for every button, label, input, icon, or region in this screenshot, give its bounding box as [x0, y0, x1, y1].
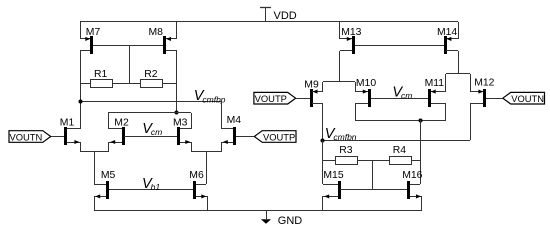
wire VOUTN to M1 gate	[51, 136, 64, 138]
resistor R3	[336, 145, 358, 165]
wire resistor row left	[80, 83, 177, 85]
transistor M15	[323, 170, 344, 210]
wire tail M11 M12	[446, 73, 470, 75]
port VOUTP left block	[254, 131, 296, 143]
wire M14 drain stub	[446, 50, 458, 52]
node B junction	[175, 111, 179, 115]
wire VDD to M13 source	[339, 22, 341, 39]
svg-text:M8: M8	[149, 27, 164, 38]
svg-text:VOUTN: VOUTN	[9, 131, 42, 142]
svg-text:b1: b1	[151, 182, 161, 192]
GND label	[278, 215, 303, 227]
wire M7 gate to M8 gate	[93, 45, 163, 47]
wire Vcmfbp to M4 drain	[221, 101, 223, 129]
svg-text:R2: R2	[144, 69, 158, 80]
wire M13 drain to tail	[339, 51, 341, 82]
svg-text:M3: M3	[173, 117, 188, 128]
resistor R2	[141, 69, 163, 87]
resistor R4	[390, 145, 412, 165]
wire node B vertical	[176, 51, 178, 113]
svg-text:cmfbn: cmfbn	[333, 132, 356, 142]
wire M2 drain vertical	[108, 113, 110, 129]
wire VOUTP to M4 gate	[236, 136, 254, 138]
svg-text:R3: R3	[339, 145, 353, 156]
VDD supply symbol	[260, 8, 271, 23]
svg-text:M6: M6	[189, 170, 204, 181]
svg-text:cmfbp: cmfbp	[202, 94, 225, 104]
wire Vcm gate wire right	[371, 98, 428, 100]
label Vcmfbn	[325, 126, 357, 142]
ground rail wire	[94, 210, 422, 212]
wire Vcm gate wire left	[124, 136, 177, 138]
transistor M10	[355, 78, 376, 120]
transistor M9	[304, 79, 323, 140]
wire M3 drain vertical	[191, 113, 193, 129]
transistor M6	[189, 170, 207, 210]
wire VDD to M7 source	[80, 22, 82, 39]
node A junction	[79, 100, 83, 104]
VDD label	[274, 10, 297, 22]
transistor M1	[60, 117, 81, 152]
transistor M8	[149, 27, 178, 54]
wire M14 drain to tail	[458, 51, 460, 74]
wire node A vertical	[80, 51, 82, 129]
wire Vb1 gate wire	[109, 189, 193, 191]
wire VOUTP to M9 gate	[296, 98, 310, 100]
svg-text:M12: M12	[474, 78, 494, 89]
wire tail M1 M2	[80, 151, 108, 153]
port VOUTN right block	[503, 92, 545, 104]
label Vcmfbp	[194, 88, 226, 104]
transistor M2	[108, 117, 129, 152]
wire M8 drain stub	[166, 50, 177, 52]
wire M12 gate to VOUTN	[486, 98, 503, 100]
wire tail M3 M4	[191, 151, 222, 153]
svg-text:cm: cm	[401, 91, 412, 101]
wire resistor row right	[323, 160, 420, 162]
node Vcmfbp wire	[80, 101, 221, 103]
svg-text:VOUTN: VOUTN	[511, 93, 544, 104]
svg-text:R4: R4	[393, 145, 407, 156]
node B2 junction	[419, 119, 423, 123]
wire tail2 to M6 drain	[206, 152, 208, 184]
wire M7 drain stub	[80, 50, 90, 52]
node A2 junction	[321, 139, 325, 143]
svg-text:VOUTP: VOUTP	[263, 131, 295, 142]
svg-text:M13: M13	[341, 27, 361, 38]
svg-text:M11: M11	[425, 78, 445, 89]
transistor M3	[173, 117, 192, 152]
svg-text:M5: M5	[101, 170, 116, 181]
transistor M16	[402, 170, 422, 210]
svg-text:cm: cm	[151, 127, 162, 137]
svg-text:VDD: VDD	[274, 10, 297, 22]
wire M10 M11 drain line	[355, 120, 446, 122]
node Vcmfbn wire	[323, 140, 470, 142]
port VOUTP right block	[254, 92, 296, 104]
wire R3 R4 midpoint to gates	[372, 160, 374, 190]
label Vb1	[142, 176, 160, 192]
transistor M12	[470, 74, 495, 140]
wire tail1 to M5 drain	[94, 152, 96, 184]
svg-text:M10: M10	[356, 78, 376, 89]
svg-text:R1: R1	[94, 69, 108, 80]
transistor M5	[94, 170, 116, 210]
transistor M13	[340, 27, 362, 54]
wire node B2 vertical	[420, 120, 422, 184]
transistor M11	[425, 74, 446, 120]
wire M15 gate to M16 gate	[340, 189, 407, 191]
wire M13 drain stub	[340, 50, 352, 52]
svg-text:M14: M14	[437, 27, 457, 38]
transistor M7	[80, 27, 100, 54]
svg-text:M16: M16	[402, 170, 422, 181]
svg-text:VOUTP: VOUTP	[255, 93, 287, 104]
svg-text:M15: M15	[323, 170, 343, 181]
wire tail M9 M10	[323, 81, 355, 83]
transistor M4	[221, 115, 241, 152]
svg-text:GND: GND	[278, 215, 303, 227]
wire VDD to M14 source	[458, 22, 460, 39]
svg-text:M9: M9	[304, 79, 319, 90]
svg-text:M4: M4	[227, 115, 242, 126]
power rail VDD wire	[80, 21, 458, 23]
port VOUTN left	[9, 131, 51, 143]
svg-text:M7: M7	[86, 27, 101, 38]
label Vcm left	[142, 121, 162, 137]
svg-text:M1: M1	[60, 117, 75, 128]
wire gate tap to R1 R2 midpoint	[129, 45, 131, 84]
wire M2 M3 drain line	[108, 112, 191, 114]
wire node A2 vertical	[322, 140, 324, 184]
svg-text:M2: M2	[114, 117, 129, 128]
resistor R1	[91, 69, 113, 87]
ground	[261, 210, 271, 224]
wire M13 gate to M14 gate	[355, 45, 444, 47]
label Vcm right	[392, 85, 412, 101]
transistor M14	[437, 27, 458, 54]
wire VDD to M8 source	[176, 22, 178, 39]
